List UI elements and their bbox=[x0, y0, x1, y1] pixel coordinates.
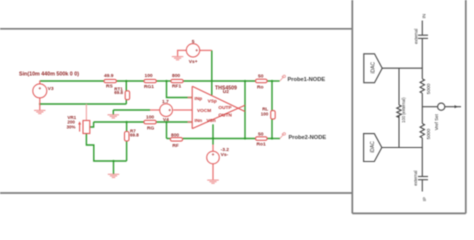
svg-text:INn: INn bbox=[195, 118, 203, 124]
svg-text:external: external bbox=[413, 170, 418, 185]
svg-text:49.9: 49.9 bbox=[104, 73, 114, 79]
svg-text:RG: RG bbox=[147, 126, 154, 132]
svg-text:U2: U2 bbox=[223, 89, 229, 95]
svg-text:IN: IN bbox=[422, 14, 427, 19]
svg-text:Sin(10m 440m 500k 0 0): Sin(10m 440m 500k 0 0) bbox=[19, 72, 79, 78]
svg-text:Vs-: Vs- bbox=[221, 152, 229, 158]
svg-text:RS: RS bbox=[106, 84, 113, 90]
svg-text:100: 100 bbox=[145, 73, 153, 79]
svg-text:VOCM: VOCM bbox=[197, 108, 211, 114]
svg-text:iDAC: iDAC bbox=[370, 141, 376, 153]
svg-text:30%: 30% bbox=[67, 124, 76, 129]
svg-text:Ro: Ro bbox=[257, 85, 263, 91]
svg-text:IP: IP bbox=[422, 197, 427, 201]
svg-text:RG1: RG1 bbox=[144, 84, 154, 90]
svg-text:100: 100 bbox=[261, 111, 269, 116]
svg-text:Vs+: Vs+ bbox=[189, 59, 198, 65]
svg-text:V4: V4 bbox=[163, 117, 169, 123]
svg-text:Probe2-NODE: Probe2-NODE bbox=[289, 135, 327, 141]
svg-text:800: 800 bbox=[172, 73, 180, 79]
svg-text:69.8: 69.8 bbox=[130, 132, 139, 137]
svg-text:OUTN: OUTN bbox=[218, 113, 232, 119]
svg-text:INp: INp bbox=[195, 96, 203, 102]
svg-text:5000: 5000 bbox=[426, 83, 432, 94]
svg-text:50: 50 bbox=[258, 132, 264, 138]
svg-text:RF1: RF1 bbox=[172, 84, 181, 90]
svg-text:50: 50 bbox=[258, 74, 264, 80]
svg-text:VSp: VSp bbox=[208, 98, 217, 104]
svg-text:Ro1: Ro1 bbox=[257, 142, 266, 148]
svg-text:external: external bbox=[413, 29, 418, 44]
svg-text:800: 800 bbox=[171, 133, 179, 139]
svg-text:69.8: 69.8 bbox=[114, 90, 123, 95]
svg-text:V3: V3 bbox=[48, 86, 54, 92]
svg-text:5: 5 bbox=[192, 39, 195, 45]
svg-text:Probe1-NODE: Probe1-NODE bbox=[288, 77, 326, 83]
svg-text:1.7: 1.7 bbox=[162, 99, 169, 105]
svg-text:RF: RF bbox=[172, 143, 178, 149]
svg-text:iDAC: iDAC bbox=[371, 62, 377, 74]
svg-text:OUTP: OUTP bbox=[218, 105, 231, 111]
svg-text:Vref Set: Vref Set bbox=[434, 113, 439, 130]
svg-text:5000: 5000 bbox=[426, 128, 432, 139]
svg-text:VSn: VSn bbox=[207, 118, 216, 124]
svg-text:100: 100 bbox=[146, 115, 154, 121]
svg-text:100 (external): 100 (external) bbox=[401, 97, 406, 123]
